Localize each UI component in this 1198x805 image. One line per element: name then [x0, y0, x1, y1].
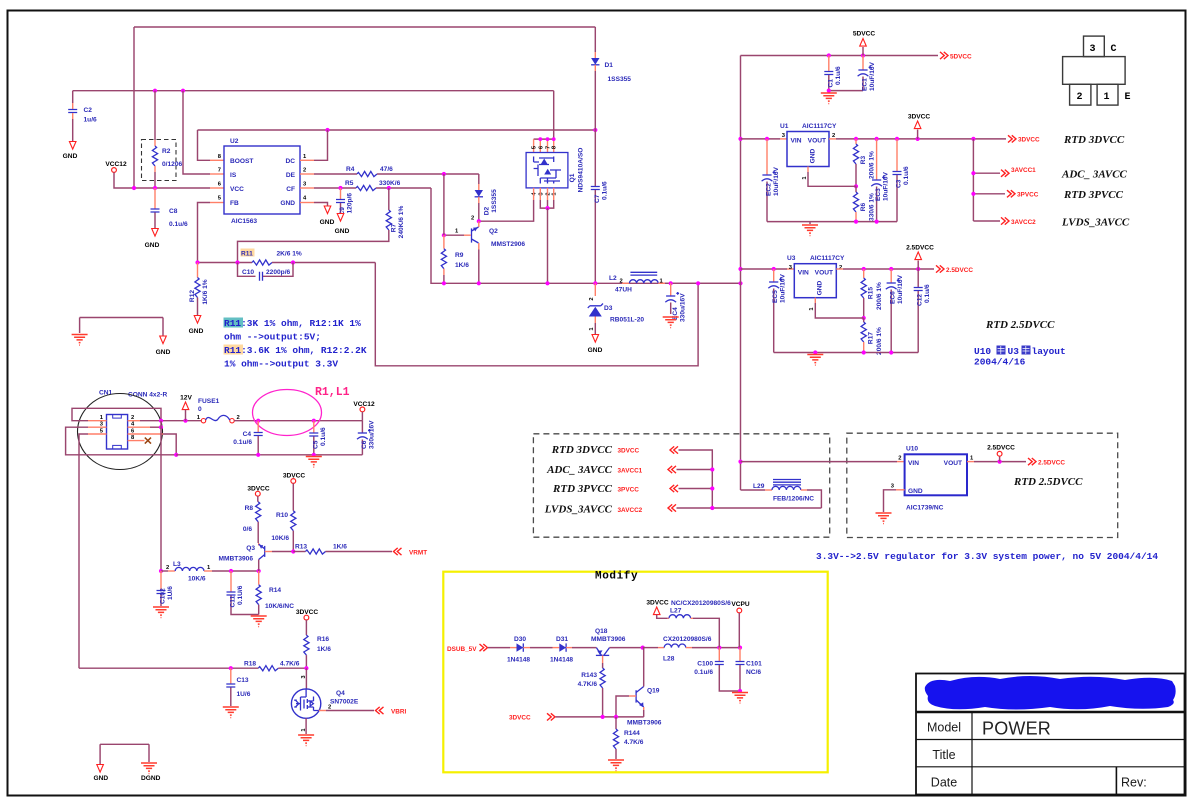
wire 3dvcc row modify [556, 716, 644, 718]
svg-text:MMBT3906: MMBT3906 [627, 720, 662, 727]
svg-text:D3: D3 [604, 305, 613, 312]
svg-text:D2: D2 [484, 206, 491, 215]
svg-text:DGND: DGND [141, 775, 161, 782]
svg-text:C6: C6 [361, 440, 368, 449]
wire net VCC top to D1 [134, 26, 595, 28]
svg-text:3: 3 [1090, 44, 1096, 55]
svg-text:R2: R2 [162, 148, 171, 155]
capacitor EC1 [862, 56, 864, 70]
svg-text:VIN: VIN [798, 270, 809, 277]
svg-text:C10: C10 [242, 269, 254, 276]
wire IS pin7 [183, 91, 210, 174]
svg-text:D1: D1 [605, 62, 614, 69]
capacitor EC5 [772, 267, 776, 271]
svg-text:Q19: Q19 [647, 688, 660, 695]
diode D31 1N4148 [553, 647, 560, 649]
svg-text:0.1u/6: 0.1u/6 [924, 284, 931, 303]
svg-text:1SS355: 1SS355 [608, 76, 632, 83]
svg-text:1N4148: 1N4148 [507, 657, 530, 664]
ground GND under R12 [194, 316, 201, 324]
wire pin1 loop [88, 420, 107, 422]
svg-text:1U/6: 1U/6 [237, 691, 251, 698]
ground earth under C102 [153, 607, 169, 618]
wire Q4 drain out [319, 710, 326, 712]
svg-text:Rev:: Rev: [1121, 776, 1147, 790]
ellipse R1,L1 [253, 390, 322, 436]
svg-text:C100: C100 [697, 661, 713, 668]
svg-text:R12: R12 [189, 290, 196, 302]
svg-text:0.1u/6: 0.1u/6 [169, 221, 188, 228]
ground earth modify right [732, 693, 748, 704]
svg-text:C2: C2 [84, 107, 93, 114]
logo scribble [925, 676, 1176, 710]
svg-text:U3: U3 [1008, 346, 1020, 357]
transistor Q19 MMBT3906 [635, 690, 637, 702]
svg-text:2.5DVCC: 2.5DVCC [946, 267, 973, 274]
capacitor C1 [828, 56, 830, 72]
resistor R144 [615, 717, 617, 729]
wire GND tie left [80, 318, 163, 337]
svg-text:3AVCC2: 3AVCC2 [618, 507, 643, 514]
svg-text:GND: GND [145, 242, 160, 249]
svg-text:R4: R4 [346, 166, 355, 173]
capacitor EC6 [890, 269, 892, 283]
svg-text:R11: R11 [241, 251, 253, 258]
svg-text:RTD 2.5DVCC: RTD 2.5DVCC [985, 319, 1055, 331]
wire U3 VOUT rail [836, 268, 843, 270]
capacitor C102 [160, 571, 162, 590]
svg-text:330u/16V: 330u/16V [679, 293, 686, 322]
svg-text:EC5: EC5 [772, 290, 779, 303]
svg-text:SN7002E: SN7002E [330, 699, 359, 706]
capacitor EC3 [876, 139, 878, 180]
svg-text:3AVCC1: 3AVCC1 [618, 467, 643, 474]
wire U1 VOUT rail [829, 138, 836, 140]
svg-text:GND: GND [588, 347, 603, 354]
svg-text:R3: R3 [860, 155, 867, 164]
resistor R2 [154, 91, 156, 140]
power arrow 5DVCC [862, 47, 864, 56]
ground GND arrow bottom [97, 765, 104, 773]
svg-text:200/6 1%: 200/6 1% [876, 282, 883, 310]
net flag 2.5DVCC out [1028, 458, 1036, 465]
svg-text:240K/6 1%: 240K/6 1% [398, 206, 405, 239]
transistor Q1 NDS9410A/SO [534, 91, 554, 139]
dashed box U10 [847, 433, 1118, 537]
svg-text:VCC12: VCC12 [105, 161, 127, 168]
resistor R15 [863, 269, 865, 278]
svg-text:VOUT: VOUT [815, 270, 833, 277]
svg-text:1U/6: 1U/6 [167, 586, 174, 600]
svg-text:47UH: 47UH [615, 287, 632, 294]
svg-text:GND: GND [280, 200, 295, 207]
svg-text:2K/6 1%: 2K/6 1% [277, 251, 302, 258]
svg-text:GND: GND [63, 153, 78, 160]
svg-text:1K/6: 1K/6 [455, 262, 469, 269]
svg-text:2: 2 [303, 168, 306, 174]
svg-text:5DVCC: 5DVCC [950, 53, 972, 60]
ground earth left [72, 335, 88, 346]
svg-text:DE: DE [286, 172, 296, 179]
capacitor C9 [340, 188, 342, 199]
ground GND under C9 [337, 214, 344, 222]
diode D30 1N4148 [517, 643, 524, 651]
svg-text:VOUT: VOUT [944, 460, 962, 467]
svg-text:GND: GND [156, 349, 171, 356]
wire flag bus [679, 450, 713, 508]
svg-text:VIN: VIN [908, 460, 919, 467]
svg-text:3PVCC: 3PVCC [618, 487, 640, 494]
svg-text:RTD 3DVCC: RTD 3DVCC [551, 444, 613, 456]
svg-text:FUSE1: FUSE1 [198, 398, 220, 405]
svg-text:AIC1563: AIC1563 [231, 218, 257, 225]
svg-text:0.1u/6: 0.1u/6 [835, 66, 842, 85]
svg-text:CX20120980S/6: CX20120980S/6 [663, 636, 712, 643]
svg-text:AIC1117CY: AIC1117CY [810, 255, 845, 262]
svg-text:MMBT3906: MMBT3906 [219, 556, 254, 563]
capacitor C10 [238, 263, 256, 277]
svg-text:AIC1117CY: AIC1117CY [802, 123, 837, 130]
svg-text:R6: R6 [860, 202, 867, 211]
svg-text:R17: R17 [868, 332, 875, 344]
power arrow 2.5DVCC [917, 261, 919, 270]
yellow Modify box [443, 572, 827, 773]
svg-text:DC: DC [285, 158, 295, 165]
svg-text:R5: R5 [345, 180, 354, 187]
svg-text:VCC12: VCC12 [353, 401, 375, 408]
svg-text:10uF/16V: 10uF/16V [773, 166, 780, 196]
capacitor C8 [154, 188, 156, 209]
wire U1 gnd rail [767, 221, 897, 223]
svg-text:GND: GND [817, 280, 824, 295]
svg-text:D30: D30 [514, 636, 526, 643]
wire 12V tap to L3 [160, 421, 162, 571]
capacitor EC2 [765, 137, 769, 141]
svg-text:1K/6 1%: 1K/6 1% [202, 279, 209, 304]
wire U1 GND pin1 [807, 167, 809, 173]
svg-text:Date: Date [931, 776, 957, 790]
svg-text:C7: C7 [594, 194, 601, 203]
capacitor C5 [313, 421, 315, 433]
svg-text:3DVCC: 3DVCC [646, 600, 669, 607]
svg-text:3.3V-->2.5V regulator for 3.3V: 3.3V-->2.5V regulator for 3.3V system po… [816, 551, 1158, 562]
svg-text:5DVCC: 5DVCC [853, 31, 876, 38]
net flag VRMT [394, 548, 402, 555]
net flag 3AVCC2 [1001, 217, 1009, 224]
svg-text:7: 7 [546, 146, 552, 149]
svg-text:GND: GND [335, 228, 350, 235]
net flag 3PVCC [1007, 190, 1015, 197]
svg-text:U10: U10 [906, 446, 918, 453]
svg-text:200/6 1%: 200/6 1% [869, 151, 876, 179]
svg-text:120p/6: 120p/6 [347, 193, 354, 214]
svg-text:C4: C4 [243, 431, 252, 438]
net chevron 3DVCC [670, 446, 678, 453]
wire BOOST pin8 [198, 130, 211, 160]
power tap 2.5DVCC circle [999, 456, 1001, 461]
svg-text:AIC1739/NC: AIC1739/NC [906, 505, 944, 512]
svg-text:R8: R8 [245, 505, 254, 512]
svg-text:MMBT3906: MMBT3906 [591, 636, 626, 643]
node junction feedback [696, 281, 700, 285]
svg-text:LVDS_3AVCC: LVDS_3AVCC [544, 504, 613, 516]
svg-text:Q4: Q4 [336, 690, 345, 697]
transistor Q18 MMBT3906 [596, 654, 609, 656]
resistor R18 [258, 666, 278, 671]
capacitor EC4 [669, 281, 673, 285]
svg-text:0/6: 0/6 [243, 526, 252, 533]
net chevron 3AVCC1 [668, 466, 676, 473]
svg-text:VCC: VCC [230, 186, 244, 193]
svg-text:4.7K/6: 4.7K/6 [280, 660, 300, 667]
svg-text:VIN: VIN [791, 138, 802, 145]
diode D1 1SS355 [594, 27, 596, 52]
svg-text:10uF/16V: 10uF/16V [883, 171, 890, 201]
wire vertical VCC12 feed [133, 27, 135, 188]
svg-text:R16: R16 [317, 636, 329, 643]
svg-text:2: 2 [839, 265, 842, 271]
svg-text:R10: R10 [276, 512, 288, 519]
capacitor C12 [917, 269, 919, 287]
svg-text:0/1206: 0/1206 [162, 161, 183, 168]
net flag VBRI [376, 707, 384, 714]
svg-text:R1,L1: R1,L1 [315, 386, 350, 399]
ground earth under R144 [608, 760, 624, 771]
ground GND pin4 U2 [300, 202, 314, 204]
svg-text:NC/CX20120980S/6: NC/CX20120980S/6 [671, 600, 731, 607]
svg-text:L2: L2 [609, 275, 617, 282]
wire 12V rail y=90.7 [73, 90, 554, 92]
svg-text:2: 2 [589, 297, 595, 300]
wire DC pin1 [300, 159, 314, 161]
capacitor C4 [257, 421, 259, 432]
svg-text:R144: R144 [624, 730, 640, 737]
resistor R12 [197, 263, 199, 278]
resistor R9 [443, 174, 445, 235]
svg-text:C101: C101 [746, 661, 762, 668]
ground GND under C8 [152, 229, 159, 237]
net flag 2.5DVCC [936, 265, 944, 272]
resistor R16 [305, 620, 307, 635]
svg-text:GND: GND [93, 775, 108, 782]
ground earth under C5 [306, 457, 322, 468]
svg-text:0.1u/6: 0.1u/6 [601, 181, 608, 200]
svg-text:3DVCC: 3DVCC [509, 715, 531, 722]
svg-text:U1: U1 [780, 123, 789, 130]
svg-text:VBRI: VBRI [391, 708, 406, 715]
svg-text:2: 2 [546, 192, 552, 195]
svg-text:ADC_ 3AVCC: ADC_ 3AVCC [1061, 168, 1128, 180]
svg-text:Model: Model [927, 721, 961, 735]
svg-text:47/6: 47/6 [380, 166, 393, 173]
svg-text:LVDS_3AVCC: LVDS_3AVCC [1061, 216, 1130, 228]
svg-text:POWER: POWER [982, 719, 1051, 739]
net flag 3AVCC1 [1001, 170, 1009, 177]
ground earth under Q4 [298, 735, 314, 746]
svg-text:E: E [1125, 92, 1131, 103]
inductor L3 [159, 569, 163, 573]
svg-text:RTD 3DVCC: RTD 3DVCC [1063, 134, 1125, 146]
wire feedback loop [375, 263, 698, 366]
svg-text:ohm -->output:5V;: ohm -->output:5V; [224, 332, 321, 343]
node junction R2 top [153, 89, 157, 93]
resistor R8 [257, 496, 259, 502]
wire U3 gnd rail [774, 352, 919, 354]
svg-text:GND: GND [189, 328, 204, 335]
svg-text:0: 0 [198, 406, 202, 413]
svg-text:VRMT: VRMT [409, 549, 427, 556]
transistor Q3 MMBT3906 [258, 543, 260, 546]
ground earth U1 [809, 222, 811, 224]
transistor Q4 SN7002E [305, 668, 307, 689]
diode D3 RB051L-20 zener [594, 283, 596, 296]
svg-text:L28: L28 [663, 656, 675, 663]
pin8 no-connect X [128, 440, 145, 442]
wire U3 GND pin1 [814, 298, 816, 303]
svg-text:1SS355: 1SS355 [491, 189, 498, 213]
wire U10 GND [896, 489, 905, 491]
resistor R3 [855, 139, 857, 144]
svg-text:NC/6: NC/6 [746, 669, 761, 676]
resistor R6 [855, 186, 857, 192]
diode D2 1SS355 [478, 174, 480, 184]
resistor R17 [863, 318, 865, 322]
ground earth under R14 [251, 616, 267, 627]
svg-text:C: C [1111, 44, 1117, 55]
svg-text:R7: R7 [391, 223, 398, 232]
svg-text:3DVCC: 3DVCC [908, 114, 931, 121]
net chevron 3AVCC2 [668, 504, 676, 511]
wire U10 VOUT [967, 461, 974, 463]
svg-text:1u/6: 1u/6 [84, 117, 98, 124]
wire FB node row [198, 262, 253, 264]
svg-text:C102: C102 [160, 588, 167, 604]
resistor R14 [258, 571, 260, 585]
svg-text:7: 7 [218, 168, 221, 174]
svg-text:3AVCC1: 3AVCC1 [1011, 167, 1036, 174]
svg-text:0.1u/6: 0.1u/6 [320, 427, 327, 446]
svg-text:3DVCC: 3DVCC [618, 447, 640, 454]
svg-text:1K/6: 1K/6 [317, 646, 331, 653]
svg-text:2: 2 [832, 133, 835, 139]
capacitor C3 [896, 139, 898, 171]
svg-text:2.5DVCC: 2.5DVCC [906, 245, 934, 252]
svg-text:CF: CF [286, 186, 295, 193]
title block [916, 674, 1185, 795]
svg-text:ADC_ 3AVCC: ADC_ 3AVCC [546, 464, 613, 476]
ground earth U10 [876, 513, 892, 524]
svg-text:RTD 3PVCC: RTD 3PVCC [552, 483, 613, 495]
svg-text:2004/4/16: 2004/4/16 [974, 357, 1026, 368]
wire R18 row [79, 667, 258, 669]
regulator U3 AIC1117CY [738, 267, 742, 271]
svg-text:10K/6/NC: 10K/6/NC [265, 603, 294, 610]
svg-text:L27: L27 [670, 608, 682, 615]
wire 12V row [234, 420, 362, 422]
ground earth under C1 [821, 93, 837, 104]
svg-text:NDS9410A/SO: NDS9410A/SO [578, 148, 585, 193]
svg-text:EC1: EC1 [862, 78, 869, 91]
svg-text:330u/16V: 330u/16V [368, 420, 375, 449]
svg-text:DSUB_5V: DSUB_5V [447, 646, 477, 653]
svg-text:2.5DVCC: 2.5DVCC [1038, 459, 1065, 466]
capacitor C6 [361, 421, 363, 433]
svg-text:RB051L-20: RB051L-20 [610, 317, 644, 324]
svg-text:GND: GND [320, 219, 335, 226]
svg-text:1K/6: 1K/6 [333, 544, 347, 551]
wire pin2 [128, 420, 140, 422]
ground GND under C2 [69, 142, 76, 150]
capacitor C100 [718, 648, 720, 661]
resistor R13 [293, 551, 305, 553]
svg-text:EC3: EC3 [875, 188, 882, 201]
svg-text:R11:3.6K 1% ohm, R12:2.2K: R11:3.6K 1% ohm, R12:2.2K [224, 345, 367, 356]
svg-text:C5: C5 [312, 440, 319, 449]
wire pin5 tap [88, 433, 107, 435]
wire VCC pin6 [210, 187, 224, 189]
svg-text:RTD 3PVCC: RTD 3PVCC [1063, 189, 1124, 201]
svg-text:2: 2 [166, 565, 169, 571]
svg-text:4.7K/6: 4.7K/6 [578, 681, 598, 688]
svg-text:C11: C11 [230, 595, 237, 607]
svg-text:GND: GND [810, 148, 817, 163]
svg-text:3AVCC2: 3AVCC2 [1011, 219, 1036, 226]
wire pin6 [128, 433, 163, 435]
svg-text:R15: R15 [868, 287, 875, 299]
svg-text:MMST2906: MMST2906 [491, 241, 525, 248]
svg-text:2.5DVCC: 2.5DVCC [987, 445, 1015, 452]
ground GND arrow [160, 336, 167, 344]
svg-text:1% ohm-->output 3.3V: 1% ohm-->output 3.3V [224, 359, 338, 370]
svg-text:R9: R9 [455, 252, 464, 259]
resistor R7 [388, 188, 390, 210]
svg-text:L29: L29 [753, 483, 765, 490]
svg-text:L3: L3 [173, 561, 181, 568]
svg-text:C8: C8 [169, 208, 178, 215]
svg-text:330K/6: 330K/6 [379, 180, 401, 187]
wire output row [431, 188, 741, 283]
wire Q1 bottom pins [534, 188, 554, 200]
svg-text:2: 2 [1077, 92, 1083, 103]
dashed box power flags [533, 434, 829, 537]
resistor R5 [300, 187, 314, 189]
svg-text:0.1u/6: 0.1u/6 [694, 669, 713, 676]
svg-text:2: 2 [898, 456, 901, 462]
node junction VCC row [132, 186, 136, 190]
resistor R10 [292, 483, 294, 510]
svg-text:IS: IS [230, 172, 237, 179]
wire GND DGND tie [100, 744, 149, 764]
svg-text:12V: 12V [180, 395, 192, 402]
wire 5DVCC rail [741, 55, 939, 57]
regulator U10 AIC1739/NC [905, 454, 967, 495]
svg-text:layout: layout [1032, 346, 1066, 357]
svg-text:RTD 2.5DVCC: RTD 2.5DVCC [1013, 476, 1083, 488]
capacitor C2 [72, 91, 74, 103]
svg-text:200/6 1%: 200/6 1% [876, 327, 883, 355]
ground GND under D3 [592, 335, 599, 343]
svg-text:C3: C3 [896, 179, 903, 188]
svg-text:0.1u/6: 0.1u/6 [903, 166, 910, 185]
svg-text:Modify: Modify [595, 571, 638, 583]
net chevron 3PVCC [670, 485, 678, 492]
regulator U1 AIC1117CY [738, 137, 742, 141]
svg-text:Title: Title [932, 748, 955, 762]
svg-text:2200p/6: 2200p/6 [266, 269, 291, 276]
wire dsub row [488, 647, 510, 649]
svg-text:Q2: Q2 [489, 228, 498, 235]
svg-text:U2: U2 [230, 138, 239, 145]
